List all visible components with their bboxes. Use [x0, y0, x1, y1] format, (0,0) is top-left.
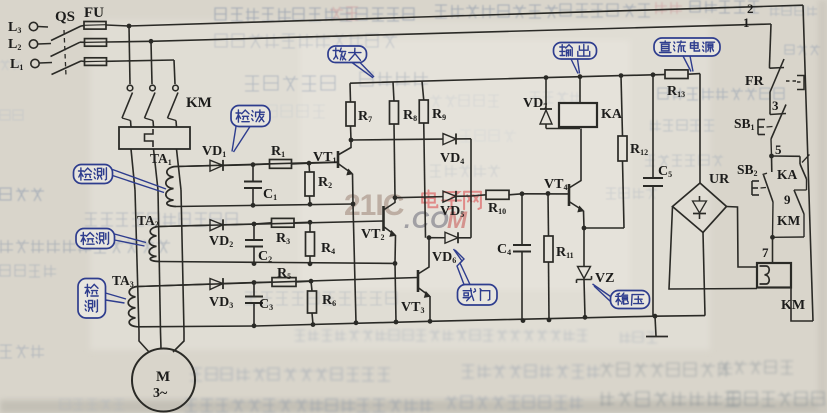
- contact KM self hold: [773, 190, 805, 237]
- junction R12 top: [619, 73, 624, 78]
- resistor R10: [471, 190, 522, 199]
- svg-text:FR: FR: [745, 74, 765, 89]
- motor M circle: [132, 349, 195, 412]
- svg-text:1: 1: [743, 15, 750, 30]
- node B1 junction: [307, 161, 312, 166]
- pushbutton SB2 start: [752, 156, 773, 237]
- pushbutton SB1 stop: [758, 105, 786, 157]
- junction C1 bottom: [251, 203, 256, 208]
- junction R11 top: [546, 191, 551, 196]
- resistor R9: [419, 81, 428, 238]
- node A1 junction: [251, 162, 256, 167]
- resistor R5: [254, 278, 311, 287]
- junction VD7 top: [544, 75, 549, 80]
- junction L2 rail: [149, 39, 154, 44]
- bleed-through pseudo text: [215, 8, 414, 21]
- wire bridge right corner to KM coil: [727, 207, 758, 268]
- capacitor C3: [245, 283, 263, 326]
- switch QS blade phase 2: [51, 42, 81, 56]
- balloon jiance 3 (detect): [78, 279, 126, 319]
- svg-text:3: 3: [772, 98, 779, 113]
- resistor R13: [664, 70, 700, 79]
- junction VZ ground: [583, 315, 588, 320]
- svg-text:FU: FU: [84, 5, 104, 21]
- wire VT2 emitter to ground rail: [395, 263, 396, 322]
- svg-text:UR: UR: [709, 172, 730, 187]
- fuse FU phase1: [81, 58, 174, 66]
- diode VD2: [159, 219, 254, 230]
- diode VD1: [176, 160, 253, 171]
- junction VT2 collector: [393, 195, 398, 200]
- capacitor C5: [643, 75, 663, 316]
- fuse FU phase3: [81, 22, 129, 30]
- diode VD3: [138, 278, 254, 289]
- svg-text:VZ: VZ: [595, 271, 614, 286]
- junction node 7: [770, 235, 775, 240]
- current transformer TA2 coil: [149, 227, 159, 262]
- node A2 junction: [252, 222, 257, 227]
- junction R11 ground: [547, 318, 552, 323]
- ground tail: [655, 316, 656, 336]
- resistor R8: [390, 82, 399, 198]
- FR heater hook symbol: [145, 129, 154, 147]
- wire bridge left corner to KM coil: [669, 207, 757, 290]
- balloon huomen (OR gate): [454, 249, 498, 305]
- QS linkage dashed: [64, 30, 66, 76]
- diode VD4 OR gate: [351, 133, 471, 144]
- svg-text:KM: KM: [186, 95, 212, 111]
- svg-text:KM: KM: [781, 298, 805, 313]
- node A3 junction: [252, 280, 257, 285]
- capacitor C4: [513, 194, 531, 321]
- wire DC top rail: [350, 75, 664, 84]
- node B2 junction: [308, 220, 313, 225]
- transistor VT4: [569, 129, 584, 229]
- resistor R7: [346, 83, 355, 140]
- svg-text:5: 5: [775, 142, 782, 157]
- wire channel1 top: [176, 162, 338, 167]
- transistor VT1: [309, 140, 353, 204]
- relay coil KA: [559, 103, 597, 127]
- wire channel2 top: [159, 221, 384, 227]
- diode VD6 OR gate: [429, 232, 471, 243]
- junction R2 bottom: [308, 202, 313, 207]
- current transformer TA1 coil: [166, 167, 176, 207]
- balloon shuchu (output): [554, 43, 597, 74]
- svg-text:9: 9: [784, 192, 791, 207]
- wire coil right to node2 rail: [791, 288, 813, 322]
- balloon jiance 1 (detect): [74, 165, 167, 193]
- wire R13 to bridge top: [699, 74, 701, 183]
- svg-text:3~: 3~: [153, 386, 168, 401]
- junction C4 top: [520, 191, 525, 196]
- wire channel3 top: [138, 278, 418, 287]
- junction ground VT1: [354, 320, 359, 325]
- transistor VT2: [384, 198, 396, 264]
- svg-text:M: M: [156, 369, 170, 385]
- switch QS blade phase 3: [51, 26, 81, 41]
- svg-text:KM: KM: [777, 213, 801, 228]
- balloon fangda (amplify): [328, 46, 374, 78]
- junction C2 bottom: [252, 261, 257, 266]
- watermark 21IC: [344, 189, 468, 234]
- junction ground VT2: [394, 320, 399, 325]
- bridge rectifier UR: [673, 183, 727, 233]
- wire phase lines through FR box down: [131, 149, 135, 190]
- resistor R1: [253, 160, 309, 169]
- wire rail node2 top: [129, 5, 803, 26]
- junction VZ top / emitter node: [582, 226, 587, 231]
- svg-text:KA: KA: [777, 167, 798, 182]
- junction C5 ground: [653, 314, 658, 319]
- wire phase drops to KM contacts: [129, 26, 130, 84]
- resistor R11: [544, 194, 553, 320]
- wire rail node1: [151, 24, 771, 41]
- node B3 junction: [309, 279, 314, 284]
- junction VT1 collector: [349, 138, 354, 143]
- balloon zhiliu dianyuan (DC supply): [654, 38, 720, 72]
- resistor R4: [306, 222, 315, 263]
- fuse FU phase2: [80, 39, 151, 47]
- wire motor leads: [139, 332, 149, 352]
- wire node1 corner down to FR: [770, 24, 772, 65]
- diode VD7 flyback: [540, 78, 580, 129]
- wire R10 to VT4 base: [522, 193, 569, 195]
- junction C5 top: [651, 72, 656, 77]
- junction L3 rail: [127, 24, 132, 29]
- wire VT1 emitter to ground rail: [353, 204, 356, 323]
- capacitor C2: [245, 224, 263, 264]
- wire node7 to coil: [772, 237, 774, 263]
- wire node2 right edge down: [803, 5, 813, 321]
- contactor KM main contact phase2: [145, 85, 156, 120]
- svg-text:2: 2: [747, 1, 754, 16]
- junction VT2 emitter at ch2 bottom: [393, 261, 398, 266]
- junction C4 ground: [521, 318, 526, 323]
- thermal relay FR heater box: [119, 127, 190, 149]
- wire bottom rail: [138, 316, 706, 327]
- resistor R6: [308, 281, 317, 324]
- diode VD5 OR gate: [395, 191, 471, 202]
- wire channel1 bottom: [176, 204, 353, 207]
- resistor R3: [254, 218, 310, 227]
- zener diode VZ: [577, 228, 592, 317]
- svg-text:KA: KA: [601, 107, 623, 122]
- wire OR cathode bus: [470, 139, 472, 238]
- wire channel2 bottom: [159, 262, 395, 264]
- junction R4 bottom: [308, 261, 313, 266]
- transistor VT3: [418, 238, 430, 322]
- contactor KM main contact phase1: [122, 85, 133, 120]
- junction R6 bottom: [311, 322, 316, 327]
- capacitor C1: [244, 165, 262, 206]
- contact KA branch: [772, 155, 810, 191]
- wire bridge bottom to ground rail: [703, 233, 705, 316]
- switch QS blade phase 1: [52, 61, 82, 75]
- junction KA top: [578, 74, 583, 79]
- junction VT1 emitter at ch1 bottom: [351, 202, 356, 207]
- svg-text:QS: QS: [55, 9, 75, 25]
- balloon wenya (voltage regulator): [593, 284, 650, 309]
- contact FR normally closed: [770, 59, 805, 112]
- contactor coil KM: [757, 263, 791, 288]
- junction ground VT3: [428, 319, 433, 324]
- resistor R2: [305, 163, 314, 204]
- wire R12 bottom to VT4 emitter: [584, 227, 624, 229]
- current transformer TA3 coil: [128, 287, 138, 327]
- balloon jianbo (detection diode): [231, 106, 270, 153]
- balloon jiance 2 (detect): [76, 229, 146, 249]
- junction VT3 collector: [427, 235, 432, 240]
- contactor KM main contact phase3: [168, 85, 179, 120]
- wire contacts to FR box: [130, 121, 133, 128]
- svg-text:7: 7: [762, 245, 769, 260]
- junction C3 bottom: [252, 323, 257, 328]
- junction node 5: [769, 154, 774, 159]
- resistor R12: [618, 76, 627, 228]
